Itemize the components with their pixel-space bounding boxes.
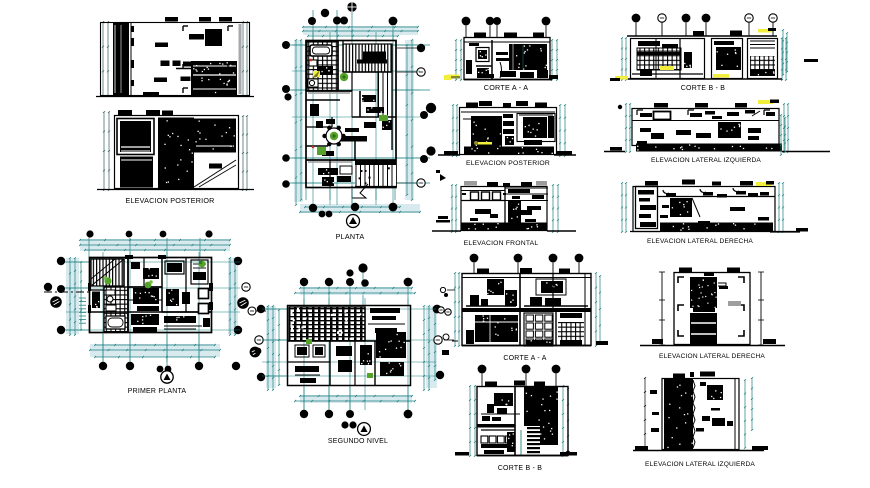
svg-text:ELEVACION POSTERIOR: ELEVACION POSTERIOR [125,197,214,205]
svg-text:ELEVACION LATERAL IZQUIERDA: ELEVACION LATERAL IZQUIERDA [651,157,761,164]
svg-text:ELEVACION POSTERIOR: ELEVACION POSTERIOR [466,160,550,167]
svg-text:CORTE B - B: CORTE B - B [498,465,543,472]
svg-text:CORTE A - A: CORTE A - A [503,355,546,362]
svg-text:ELEVACION LATERAL DERECHA: ELEVACION LATERAL DERECHA [647,238,753,245]
svg-text:PRIMER PLANTA: PRIMER PLANTA [128,388,187,395]
svg-text:SEGUNDO NIVEL: SEGUNDO NIVEL [328,438,388,445]
svg-text:ELEVACION LATERAL DERECHA: ELEVACION LATERAL DERECHA [659,353,765,360]
svg-text:PLANTA: PLANTA [336,233,365,241]
svg-text:ELEVACION FRONTAL: ELEVACION FRONTAL [464,240,539,247]
svg-text:ELEVACION LATERAL IZQUIERDA: ELEVACION LATERAL IZQUIERDA [645,461,755,468]
svg-text:CORTE A - A: CORTE A - A [484,84,528,92]
svg-text:CORTE B - B: CORTE B - B [681,85,726,92]
